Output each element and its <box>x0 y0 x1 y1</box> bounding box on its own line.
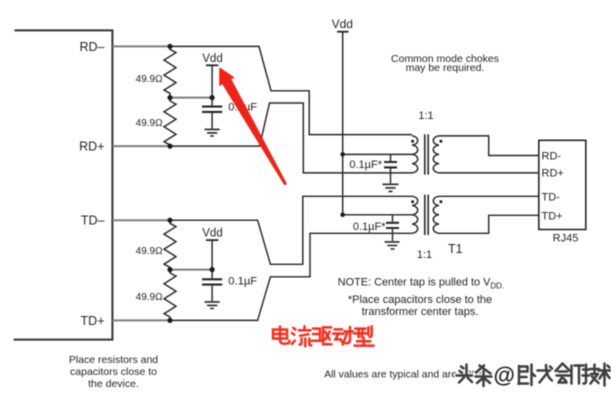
ground below C1 <box>205 129 220 136</box>
junction node TD- / R3 <box>167 218 172 223</box>
ground below C3 <box>383 184 399 191</box>
RJ45 connector box <box>539 140 586 229</box>
watermark letters IT <box>572 366 584 384</box>
wire secondary top to RJ45 RD- <box>439 136 539 156</box>
wire Vdd vertical rail <box>342 32 344 215</box>
junction node RD- / R1 <box>167 44 172 49</box>
svg-text:Vdd: Vdd <box>332 17 353 31</box>
phase dot primary top <box>411 140 414 143</box>
svg-text:may be required.: may be required. <box>406 62 485 74</box>
svg-text:0.1µF: 0.1µF <box>228 275 257 287</box>
phase dot secondary bottom <box>439 200 442 203</box>
transformer T1 bottom core <box>425 195 428 235</box>
svg-text:TD+: TD+ <box>81 314 105 328</box>
capacitor C4 0.1uF* TD center tap <box>392 215 394 222</box>
red caption: hanzi qu (drive) <box>312 329 321 341</box>
red caption: hanzi dian (electric) <box>273 326 374 346</box>
watermark hanzi tou <box>457 365 473 383</box>
transformer T1 top primary winding <box>412 136 418 173</box>
wire secondary to RJ45 TD+ <box>439 215 539 233</box>
junction node Vdd rail / TD center tap <box>340 213 345 218</box>
wire TD+ funnel to transformer bottom <box>170 233 412 320</box>
wire RD+ gray from device <box>112 145 171 147</box>
junction node R3/R4 center tap <box>167 267 172 272</box>
svg-text:49.9Ω: 49.9Ω <box>136 292 163 303</box>
phase dot secondary top <box>439 140 442 143</box>
transformer T1 bottom primary winding <box>412 196 418 233</box>
wire TD- funnel to transformer top <box>170 196 412 264</box>
svg-text:TD–: TD– <box>81 213 105 227</box>
svg-text:transformer center taps.: transformer center taps. <box>362 306 479 318</box>
capacitor C3 0.1uF* RD center tap <box>390 154 392 161</box>
svg-text:TD+: TD+ <box>542 210 563 222</box>
wire jumper RD center tap to Vdd <box>170 97 212 99</box>
watermark white halo + gray strokes <box>457 364 611 387</box>
ground below C2 <box>205 302 220 309</box>
wire TD+ gray from device <box>112 319 171 321</box>
svg-text:1:1: 1:1 <box>417 249 432 261</box>
Vdd symbol TD section <box>206 239 218 241</box>
svg-text:capacitors close to: capacitors close to <box>70 366 157 378</box>
resistor R3 49.9ohm TD- <box>164 220 176 269</box>
wire RD+ funnel to transformer bottom <box>170 103 412 173</box>
capacitor C1 0.1uF RD <box>211 98 213 106</box>
svg-text:0.1µF*: 0.1µF* <box>353 221 386 233</box>
watermark hanzi wo <box>519 365 536 386</box>
svg-text:0.1µF*: 0.1µF* <box>349 159 382 171</box>
svg-text:T1: T1 <box>448 242 463 256</box>
transformer T1 top core <box>425 134 428 174</box>
svg-text:NOTE: Center tap is pulled to: NOTE: Center tap is pulled to VDD. <box>338 277 504 291</box>
svg-text:1:1: 1:1 <box>418 110 433 122</box>
svg-text:49.9Ω: 49.9Ω <box>136 118 163 129</box>
watermark hanzi ji <box>583 365 600 384</box>
Vdd symbol RD section <box>206 64 218 66</box>
svg-text:RJ45: RJ45 <box>553 232 579 244</box>
capacitor C2 0.1uF TD <box>211 270 213 279</box>
red caption: hanzi dong (move) <box>333 329 344 342</box>
svg-text:RD+: RD+ <box>79 140 104 154</box>
svg-text:@: @ <box>494 363 515 388</box>
wire TD center tap line <box>343 214 412 216</box>
svg-text:49.9Ω: 49.9Ω <box>136 246 163 257</box>
junction node TD+ / R4 <box>167 318 172 323</box>
resistor R2 49.9ohm RD+ <box>164 98 176 147</box>
junction node RD+ / R2 <box>167 144 172 149</box>
red caption: hanzi xing (type) <box>354 329 366 337</box>
svg-text:Place resistors and: Place resistors and <box>69 354 158 366</box>
watermark hanzi hui <box>556 364 571 383</box>
wire RD center tap line <box>343 153 412 155</box>
svg-text:RD-: RD- <box>542 151 562 163</box>
svg-text:*Place capacitors close to the: *Place capacitors close to the <box>348 294 492 306</box>
svg-text:RD–: RD– <box>79 40 104 54</box>
wire RD- funnel to transformer top <box>170 46 412 134</box>
red annotation arrow <box>219 67 287 185</box>
svg-text:RD+: RD+ <box>542 168 564 180</box>
svg-text:Vdd: Vdd <box>202 228 222 240</box>
wire secondary bottom to RJ45 RD+ <box>439 172 539 174</box>
svg-text:the device.: the device. <box>88 378 139 390</box>
resistor R1 49.9ohm RD- <box>164 46 176 97</box>
phase dot primary bottom <box>411 200 414 203</box>
junction node TD Vdd / C2 <box>210 267 215 272</box>
wire TD- gray from device <box>112 219 171 221</box>
watermark text strokes <box>457 364 611 387</box>
watermark hanzi tiao <box>476 366 492 387</box>
watermark hanzi long <box>538 365 553 383</box>
svg-text:49.9Ω: 49.9Ω <box>136 74 163 85</box>
svg-text:Vdd: Vdd <box>202 53 222 65</box>
transformer T1 bottom secondary winding <box>433 196 439 233</box>
svg-text:TD-: TD- <box>542 191 561 203</box>
watermark hanzi shu <box>599 364 611 386</box>
resistor R4 49.9ohm TD+ <box>164 270 176 321</box>
wire jumper TD center tap to Vdd <box>170 269 212 271</box>
transformer T1 top secondary winding <box>433 136 439 173</box>
Vdd rail symbol top <box>337 31 349 33</box>
junction node RD Vdd / C1 <box>210 95 215 100</box>
red caption: hanzi liu (flow) <box>292 328 296 344</box>
wire RD- gray from device <box>112 45 171 47</box>
device box (PHY IC) <box>14 30 113 339</box>
ground below C4 <box>385 242 400 249</box>
junction node Vdd rail / RD center tap <box>340 152 345 157</box>
junction node R1/R2 center tap <box>167 95 172 100</box>
wire secondary to RJ45 TD- <box>439 195 539 197</box>
